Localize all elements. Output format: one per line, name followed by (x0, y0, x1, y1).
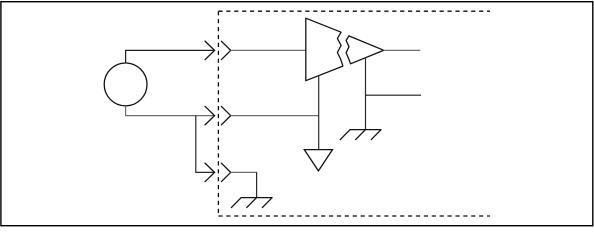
op-amp U1 right torn piece (346, 36, 384, 64)
signal ground (triangle) (304, 150, 332, 171)
dashed enclosure (device boundary) (218, 11, 490, 216)
wire: source bottom to plug 2 (126, 106, 215, 116)
connector plug P1 (205, 41, 215, 60)
wire: jack 2 to ground node (231, 115, 319, 117)
connector plug P2 (205, 106, 215, 125)
wire: source top to plug 1 (126, 50, 215, 63)
source V1 (104, 63, 147, 106)
wire: down to chassis ground (256, 172, 258, 197)
wire: output reference (366, 94, 422, 96)
op-amp U1 left torn piece (306, 18, 343, 80)
connector jack J3 (221, 163, 230, 181)
wire: amp lower-left to signal ground (318, 76, 320, 150)
chassis ground 2 (shield) (340, 130, 382, 140)
chassis ground (shield) (231, 198, 273, 208)
connector plug P3 (205, 163, 215, 182)
wire: small piece bottom to chassis ground 2 (365, 57, 367, 129)
wire: branch down to plug 3 (196, 116, 215, 173)
connector jack J1 (221, 41, 230, 59)
wire: amp output (384, 49, 421, 51)
connector jack J2 (221, 106, 230, 124)
wire: jack 1 to amp input (231, 49, 306, 51)
wire: jack 3 to chassis ground (231, 171, 258, 173)
